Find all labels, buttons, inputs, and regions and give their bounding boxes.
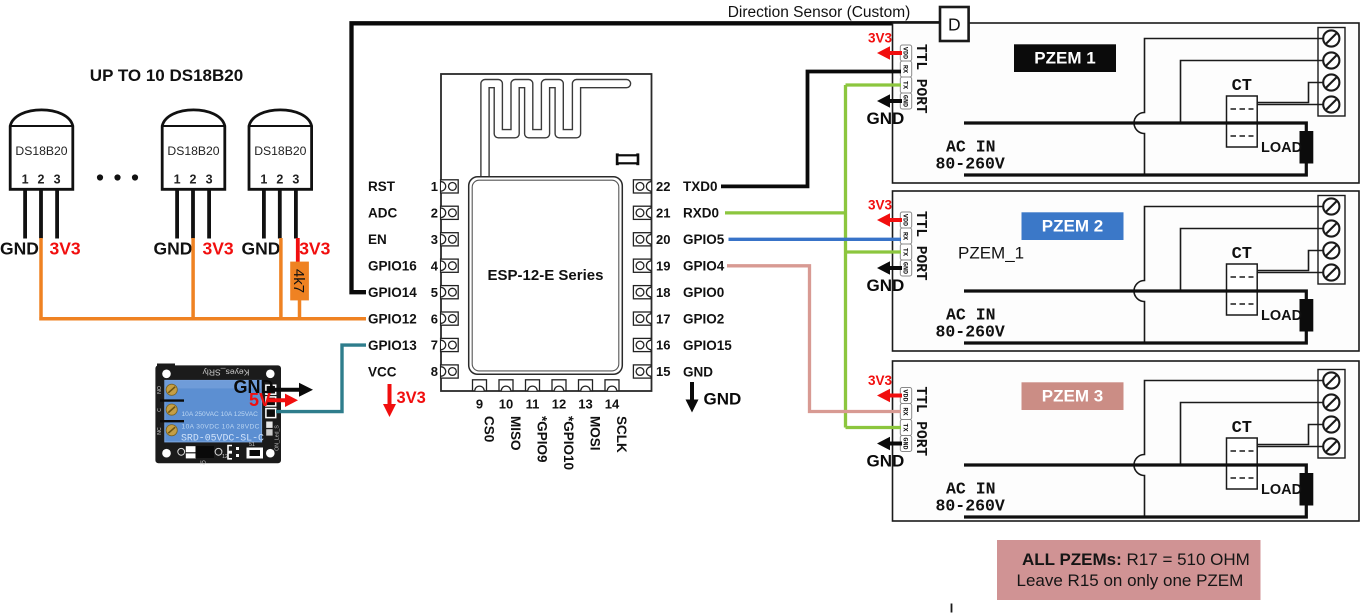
sensor U2 (left) DS18B20 <box>10 110 73 239</box>
svg-text:EN: EN <box>368 232 387 247</box>
pin 20 GPIO5 (right pad) <box>633 232 724 247</box>
resistor LOAD (PZEM 3) <box>1261 473 1313 506</box>
svg-text:Keyes_SRly: Keyes_SRly <box>202 368 250 378</box>
svg-text:UP TO 10 DS18B20: UP TO 10 DS18B20 <box>90 66 243 85</box>
svg-text:ADC: ADC <box>368 206 397 221</box>
svg-text:PZEM_1: PZEM_1 <box>958 244 1024 263</box>
svg-text:10A 250VAC 10A 125VAC: 10A 250VAC 10A 125VAC <box>182 411 259 418</box>
svg-text:12: 12 <box>552 397 566 412</box>
svg-text:17: 17 <box>656 311 670 326</box>
wire GPIO14 to direction sensor D (black) <box>352 23 941 292</box>
svg-text:3V3: 3V3 <box>299 239 330 259</box>
wire AC mains loop (PZEM 2) <box>964 291 1306 343</box>
wire terminal1 to AC neutral (PZEM 1) <box>1134 39 1324 176</box>
arrow 3V3 below VCC (red, down) <box>383 384 426 417</box>
svg-text:MISO: MISO <box>508 416 523 451</box>
terminal block PZEM 2 <box>1318 196 1345 285</box>
current transformer CT (PZEM 2) <box>1227 245 1258 315</box>
svg-text:GND: GND <box>154 239 193 259</box>
sensor U4 (right) DS18B20 <box>249 110 312 239</box>
svg-text:TTL PORT: TTL PORT <box>912 387 928 457</box>
svg-text:*GPIO10: *GPIO10 <box>561 416 576 470</box>
arrow GND at PZEM2 (black, pointing left) <box>867 261 905 295</box>
label PZEM 3 <box>1022 382 1124 410</box>
svg-text:11: 11 <box>526 397 540 412</box>
svg-text:NO: NO <box>157 386 163 394</box>
svg-text:ON_Led_S: ON_Led_S <box>275 425 281 451</box>
svg-text:MOSI: MOSI <box>587 416 602 451</box>
svg-text:13: 13 <box>578 397 592 412</box>
svg-text:GPIO12: GPIO12 <box>368 311 417 326</box>
module PZEM 1 box <box>893 23 1360 183</box>
svg-text:15: 15 <box>656 364 670 379</box>
svg-text:4k7: 4k7 <box>290 269 307 293</box>
svg-text:GPIO16: GPIO16 <box>368 259 417 274</box>
pin 13 MOSI (bottom pad) <box>578 380 602 451</box>
pin 1 RST (left pad) <box>368 179 458 194</box>
TTL port header (PZEM 1) <box>900 44 928 114</box>
wire TXD0 to PZEM1 RX (black) <box>721 72 901 187</box>
svg-text:3V3: 3V3 <box>868 31 893 46</box>
pin 18 GPIO0 (right pad) <box>633 285 724 300</box>
wire terminal1 to AC neutral (PZEM 2) <box>1134 207 1324 344</box>
svg-text:RST: RST <box>368 179 396 194</box>
current transformer CT (PZEM 3) <box>1227 419 1258 489</box>
note box ALL PZEMs <box>997 540 1261 600</box>
svg-text:2: 2 <box>276 173 283 187</box>
svg-text:10: 10 <box>499 397 513 412</box>
label AC IN 80-260V (PZEM 3) <box>936 480 1005 516</box>
svg-text:3V3: 3V3 <box>397 389 426 407</box>
svg-text:3: 3 <box>431 232 438 247</box>
svg-text:20: 20 <box>656 232 670 247</box>
svg-text:3V3: 3V3 <box>50 239 81 259</box>
pin 14 SCLK (bottom pad) <box>605 380 629 453</box>
TTL port header (PZEM 3) <box>900 387 928 457</box>
current transformer CT (PZEM 1) <box>1227 77 1258 147</box>
svg-text:7: 7 <box>431 338 438 353</box>
svg-text:IO: IO <box>200 461 206 467</box>
svg-text:TX: TX <box>901 248 909 257</box>
svg-text:2: 2 <box>190 173 197 187</box>
pin 16 GPIO15 (right pad) <box>633 338 732 353</box>
node D direction sensor box <box>940 7 969 41</box>
pin 10 MISO (bottom pad) <box>499 380 523 451</box>
svg-text:TTL PORT: TTL PORT <box>912 211 928 281</box>
svg-text:16: 16 <box>656 338 670 353</box>
relay module K1 Keyes_SRly <box>155 364 281 467</box>
svg-text:CS0: CS0 <box>481 416 496 442</box>
pin 3 EN (left pad) <box>368 232 458 247</box>
sensor U3 (middle) DS18B20 <box>162 110 225 239</box>
pin 7 GPIO13 (left pad) <box>368 338 458 353</box>
wire GPIO4 to PZEM3 RX (pink) <box>727 266 901 412</box>
svg-text:GND: GND <box>867 276 905 295</box>
svg-text:GND: GND <box>867 109 905 128</box>
terminal block PZEM 3 <box>1318 370 1345 459</box>
svg-text:GPIO15: GPIO15 <box>683 338 732 353</box>
pin 17 GPIO2 (right pad) <box>633 311 724 326</box>
wire AC mains loop (PZEM 1) <box>964 123 1306 175</box>
wire RXD0 to PZEM TX bus (green) <box>725 85 901 428</box>
ellipsis dots between sensors <box>97 174 138 180</box>
antenna PCB trace (meander) <box>485 84 627 178</box>
pin 15 GND (right pad) <box>633 364 713 379</box>
resistor LOAD (PZEM 1) <box>1261 131 1313 164</box>
svg-text:GPIO2: GPIO2 <box>683 311 724 326</box>
svg-text:3: 3 <box>292 173 299 187</box>
wire terminal3 to CT (PZEM 2) <box>1257 251 1324 271</box>
wire terminal1 to AC neutral (PZEM 3) <box>1134 381 1324 518</box>
svg-text:Direction Sensor (Custom): Direction Sensor (Custom) <box>728 4 911 21</box>
pin 4 GPIO16 (left pad) <box>368 258 458 273</box>
svg-text:TX: TX <box>901 423 909 432</box>
arrow GND below pin15 (black, down) <box>686 382 742 413</box>
svg-text:22: 22 <box>656 179 670 194</box>
label AC IN 80-260V (PZEM 2) <box>936 306 1005 342</box>
wire relay S to GPIO13 (teal) <box>276 345 366 412</box>
wire terminal4 to CT (PZEM 3) <box>1257 446 1324 448</box>
pin 21 RXD0 (right pad) <box>633 206 719 221</box>
svg-text:51: 51 <box>249 442 255 448</box>
svg-text:DS18B20: DS18B20 <box>167 144 219 158</box>
svg-text:GPIO0: GPIO0 <box>683 285 724 300</box>
svg-text:GND: GND <box>0 239 39 259</box>
svg-text:6: 6 <box>431 311 438 326</box>
svg-text:C: C <box>157 408 163 412</box>
svg-text:1: 1 <box>260 173 267 187</box>
pin 11 *GPIO9 (bottom pad) <box>526 380 550 463</box>
wire one-wire data bus (orange) to GPIO12 <box>39 238 366 319</box>
svg-text:TX: TX <box>901 81 909 90</box>
svg-text:CT: CT <box>1232 419 1252 438</box>
svg-text:DS18B20: DS18B20 <box>15 144 67 158</box>
wire terminal2 to AC live (PZEM 1) <box>1181 61 1325 124</box>
pin 9 CS0 (bottom pad) <box>473 380 497 442</box>
terminal block PZEM 1 <box>1318 28 1345 117</box>
wire stub bottom center <box>951 604 953 613</box>
arrow 3V3 to PZEM2 VDD (red, pointing left) <box>868 198 902 227</box>
arrow 3V3 to PZEM3 VDD (red, pointing left) <box>868 373 902 402</box>
wire terminal4 to CT (PZEM 2) <box>1257 272 1324 274</box>
pin 5 GPIO14 (left pad) <box>368 285 458 300</box>
svg-text:3V3: 3V3 <box>203 239 234 259</box>
svg-text:RX: RX <box>901 65 909 74</box>
svg-text:NC: NC <box>157 427 163 435</box>
svg-text:GPIO13: GPIO13 <box>368 338 417 353</box>
wire AC mains loop (PZEM 3) <box>964 465 1306 517</box>
svg-text:Leave R15 on only one PZEM: Leave R15 on only one PZEM <box>1017 571 1244 590</box>
arrow GND at PZEM3 (black, pointing left) <box>867 437 905 471</box>
svg-text:GND: GND <box>683 364 713 379</box>
svg-text:LOAD: LOAD <box>1261 482 1302 498</box>
svg-text:2: 2 <box>431 206 438 221</box>
SMD jumper component top right <box>617 153 638 165</box>
wire terminal4 to CT (PZEM 1) <box>1257 104 1324 106</box>
svg-text:TTL PORT: TTL PORT <box>912 44 928 114</box>
svg-text:5: 5 <box>431 285 438 300</box>
svg-text:80-260V: 80-260V <box>936 497 1005 516</box>
svg-text:8: 8 <box>431 364 438 379</box>
label PZEM 2 <box>1022 212 1124 240</box>
arrow GND at PZEM1 (black, pointing left) <box>867 94 905 128</box>
module PZEM 2 box <box>893 191 1360 351</box>
svg-text:5V: 5V <box>249 390 271 410</box>
svg-text:D: D <box>948 15 961 35</box>
svg-text:GPIO14: GPIO14 <box>368 285 417 300</box>
module U1 ESP-12-E outline <box>441 74 652 391</box>
label AC IN 80-260V (PZEM 1) <box>936 138 1005 174</box>
pin 22 TXD0 (right pad) <box>633 179 717 194</box>
svg-text:*GPIO9: *GPIO9 <box>534 416 549 463</box>
svg-text:TXD0: TXD0 <box>683 179 718 194</box>
svg-text:80-260V: 80-260V <box>936 323 1005 342</box>
svg-text:GND: GND <box>867 452 905 471</box>
svg-text:12: 12 <box>222 454 228 460</box>
svg-text:DS18B20: DS18B20 <box>254 144 306 158</box>
svg-text:9: 9 <box>476 397 483 412</box>
svg-text:1: 1 <box>431 179 438 194</box>
svg-text:3V3: 3V3 <box>868 198 893 213</box>
svg-text:CT: CT <box>1232 245 1252 264</box>
svg-text:14: 14 <box>605 397 620 412</box>
svg-text:4: 4 <box>431 258 439 273</box>
svg-text:LOAD: LOAD <box>1261 308 1302 324</box>
module PZEM 3 box <box>893 361 1360 521</box>
svg-text:3: 3 <box>206 173 213 187</box>
wire terminal2 to AC live (PZEM 3) <box>1181 403 1325 466</box>
arrow relay GND (black, pointing right) <box>267 388 301 392</box>
svg-text:PZEM 2: PZEM 2 <box>1042 217 1103 236</box>
label PZEM 1 <box>1014 44 1116 72</box>
svg-text:RXD0: RXD0 <box>683 206 719 221</box>
svg-text:GND: GND <box>242 239 281 259</box>
svg-text:10A 30VDC 10A 28VDC: 10A 30VDC 10A 28VDC <box>182 424 260 431</box>
wire terminal3 to CT (PZEM 1) <box>1257 83 1324 103</box>
pin 6 GPIO12 (left pad) <box>368 311 458 326</box>
svg-text:GPIO4: GPIO4 <box>683 259 725 274</box>
svg-text:3: 3 <box>54 173 61 187</box>
pin 19 GPIO4 (right pad) <box>633 258 724 273</box>
svg-text:2: 2 <box>38 173 45 187</box>
resistor R1 4k7 pullup <box>290 262 309 301</box>
svg-text:CT: CT <box>1232 77 1252 96</box>
wire terminal2 to AC live (PZEM 2) <box>1181 229 1325 292</box>
wire terminal3 to CT (PZEM 3) <box>1257 425 1324 445</box>
svg-text:18: 18 <box>656 285 670 300</box>
pin 12 *GPIO10 (bottom pad) <box>552 380 576 470</box>
pin 8 VCC (left pad) <box>368 364 458 379</box>
arrow 3V3 to PZEM1 VDD (red, pointing left) <box>868 31 902 60</box>
svg-text:80-260V: 80-260V <box>936 155 1005 174</box>
svg-text:PZEM 1: PZEM 1 <box>1034 49 1095 68</box>
svg-text:ALL PZEMs: R17 = 510 OHM: ALL PZEMs: R17 = 510 OHM <box>1022 550 1250 569</box>
resistor LOAD (PZEM 2) <box>1261 299 1313 332</box>
svg-text:ESP-12-E Series: ESP-12-E Series <box>488 267 604 284</box>
wire GPIO5 to PZEM2 RX (blue) <box>729 238 902 241</box>
svg-text:1: 1 <box>22 173 29 187</box>
svg-text:GPIO5: GPIO5 <box>683 232 725 247</box>
pin 2 ADC (left pad) <box>368 206 458 221</box>
svg-text:19: 19 <box>656 258 670 273</box>
svg-text:PZEM 3: PZEM 3 <box>1042 387 1103 406</box>
arrow relay 5V (red, pointing right) <box>268 398 287 402</box>
svg-text:GND: GND <box>704 390 742 409</box>
wire red 3V3 segment to pullup resistor <box>296 238 300 263</box>
svg-text:3V3: 3V3 <box>868 373 893 388</box>
svg-text:RX: RX <box>901 232 909 241</box>
TTL port header (PZEM 2) <box>900 211 928 281</box>
svg-text:VCC: VCC <box>368 364 397 379</box>
svg-text:RX: RX <box>901 407 909 416</box>
RF shield can <box>469 177 623 374</box>
svg-text:21: 21 <box>656 206 670 221</box>
svg-text:SCLK: SCLK <box>614 416 629 453</box>
svg-text:1: 1 <box>174 173 181 187</box>
svg-text:LOAD: LOAD <box>1261 140 1302 156</box>
